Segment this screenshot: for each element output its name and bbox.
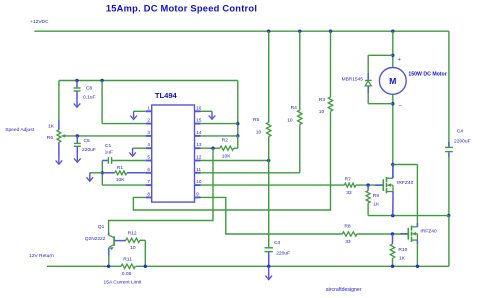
wire M3 source to rail [416, 244, 418, 266]
wire nodeX vertical [101, 161, 103, 186]
transistor M3 IRFZ40 lower [400, 223, 417, 244]
wire Vref down to pin15/14 [237, 81, 239, 136]
resistor R11 [121, 264, 135, 268]
svg-text:10K: 10K [222, 154, 231, 160]
svg-text:1K: 1K [373, 202, 380, 208]
svg-text:R11: R11 [123, 256, 132, 262]
label R6 1K [48, 124, 55, 130]
ground C8 [74, 99, 81, 107]
resistor R7 [344, 183, 355, 187]
svg-text:R8: R8 [344, 223, 351, 229]
svg-text:2: 2 [147, 118, 150, 123]
wire pin16 [201, 110, 213, 112]
svg-text:15A Current Limit: 15A Current Limit [104, 279, 142, 285]
svg-text:R4: R4 [291, 105, 298, 111]
label C4 value [454, 139, 471, 145]
label R9 [373, 193, 380, 199]
label R10 [398, 247, 407, 253]
node +12V rail / R4 junction [298, 30, 301, 33]
svg-text:R3: R3 [319, 97, 326, 103]
wire pin2 drop [102, 81, 146, 124]
svg-text:16: 16 [196, 105, 202, 110]
svg-text:R6: R6 [47, 135, 54, 141]
resistor R9 [366, 185, 370, 216]
svg-text:33: 33 [346, 190, 352, 196]
capacitor C5 [74, 136, 81, 155]
svg-text:aircraftdesigner: aircraftdesigner [326, 287, 362, 293]
svg-text:220uF: 220uF [82, 147, 96, 153]
wire nodeX ground branch [90, 172, 103, 174]
label R9 value [373, 202, 380, 208]
label C8 value [83, 95, 96, 101]
wire drain branch to M3 [393, 165, 418, 227]
label Q1 [98, 224, 105, 230]
wire M2 source [392, 196, 394, 216]
svg-text:1: 1 [147, 105, 150, 110]
ground nodeX [87, 173, 94, 181]
wire Vref to R6 top [58, 81, 60, 130]
wire C4 to source line [448, 157, 450, 216]
svg-text:TL494: TL494 [155, 91, 178, 100]
node pin13/Q1 [211, 147, 214, 150]
label R1 value [116, 177, 125, 183]
node gate M3/R10 [391, 232, 394, 235]
label C3 value [276, 250, 290, 256]
wire flyback top [368, 55, 393, 80]
wire pin8 to R3 [133, 111, 330, 210]
node +12V rail / motor junction [391, 30, 394, 33]
svg-text:Speed Adjust: Speed Adjust [5, 127, 34, 133]
svg-text:10: 10 [319, 109, 325, 115]
svg-text:2200uF: 2200uF [454, 139, 471, 145]
label R6 [47, 135, 54, 141]
svg-text:3: 3 [147, 130, 150, 135]
svg-text:15: 15 [196, 118, 202, 123]
wire motor bottom [392, 94, 394, 178]
label IRFZ40 upper [397, 180, 414, 186]
node pin15 junction [236, 122, 239, 125]
wire rail to motor [392, 31, 394, 67]
label R8 value [345, 239, 351, 245]
node pin14 junction [236, 134, 239, 137]
svg-text:R2: R2 [222, 138, 229, 144]
svg-text:10: 10 [256, 129, 262, 135]
node +12V rail / R3 junction [329, 30, 332, 33]
wire pin4 [133, 147, 146, 149]
wire R6 bottom [58, 142, 60, 156]
pins TL494 numbers [147, 105, 202, 196]
label 15A Current Limit [104, 279, 142, 285]
label Speed Adjust [5, 127, 34, 133]
svg-text:C5: C5 [84, 138, 91, 144]
svg-text:12: 12 [196, 155, 202, 160]
wire 12V return rail right [135, 265, 449, 267]
svg-text:13: 13 [196, 142, 202, 147]
svg-text:4: 4 [147, 142, 150, 147]
label C5 [84, 138, 91, 144]
transistor M2 IRFZ40 upper [375, 175, 393, 196]
label C8 [86, 86, 93, 92]
label TL494 [155, 91, 178, 100]
svg-text:R9: R9 [373, 193, 380, 199]
svg-text:C3: C3 [274, 240, 281, 246]
node wiper/C5 [76, 134, 79, 137]
label R5 [253, 117, 260, 123]
capacitor C1 [102, 157, 145, 164]
ground pin16 [209, 111, 216, 119]
label Q2N2222 [85, 236, 106, 242]
svg-text:9: 9 [196, 191, 199, 196]
ground rail [265, 266, 272, 279]
label R3 [319, 97, 326, 103]
label R11 [123, 256, 132, 262]
label R7 [345, 176, 352, 182]
node R10/ground rail [391, 265, 394, 268]
op-amp U1 TL494 body [152, 105, 195, 202]
motor M1 circle [379, 68, 406, 95]
node motor top [391, 54, 394, 57]
wire Vref horizontal [59, 80, 238, 82]
label R2 value [222, 154, 231, 160]
label R1 [117, 165, 124, 171]
svg-text:IRFZ40: IRFZ40 [397, 180, 414, 186]
node pin12/R5 column [267, 159, 270, 162]
svg-text:11: 11 [196, 167, 201, 172]
ground pin1 [130, 111, 137, 119]
wire R12 to rail [140, 240, 145, 266]
svg-text:12V Return: 12V Return [29, 253, 54, 259]
wire M2 drain [392, 165, 394, 175]
wire R7 to gate [356, 184, 384, 186]
wire pin13 [201, 147, 220, 149]
svg-text:5: 5 [147, 155, 150, 160]
svg-text:R10: R10 [398, 247, 407, 253]
label C1 [105, 143, 112, 149]
wire pin1 [134, 110, 146, 112]
potentiometer R6 [57, 130, 67, 142]
label 150W DC Motor [408, 71, 446, 77]
svg-text:10: 10 [130, 245, 136, 251]
label R12 value [130, 245, 136, 251]
svg-text:8: 8 [147, 191, 150, 196]
node C3/ground rail [267, 265, 270, 268]
label R10 value [399, 256, 406, 262]
svg-text:+: + [398, 57, 401, 63]
wire pin11 [201, 126, 300, 173]
wire pin12 [201, 160, 269, 162]
resistor R10 [390, 234, 394, 266]
svg-text:Q2N2222: Q2N2222 [85, 236, 106, 242]
svg-text:10: 10 [196, 179, 202, 184]
resistor R4 [298, 31, 302, 126]
svg-text:R5: R5 [253, 117, 260, 123]
svg-text:6: 6 [147, 167, 150, 172]
label IRFZ40 lower [420, 228, 437, 234]
wire source line [368, 215, 449, 217]
label R4 [291, 105, 298, 111]
capacitor C3 [265, 247, 273, 267]
svg-text:–: – [399, 103, 403, 109]
svg-text:R1: R1 [117, 165, 124, 171]
svg-text:0.05: 0.05 [122, 271, 132, 277]
wire +12V rail [34, 30, 449, 32]
node source line / C4 column [447, 214, 450, 217]
svg-text:10K: 10K [116, 177, 125, 183]
diode D1 MBR1545 [365, 80, 372, 86]
resistor R8 [342, 232, 357, 236]
label title [106, 4, 257, 14]
node Q1 emitter/rail [107, 265, 110, 268]
svg-text:IRFZ40: IRFZ40 [420, 228, 437, 234]
svg-text:0.1uF: 0.1uF [83, 95, 96, 101]
label C5 value [82, 147, 96, 153]
node M3 source/ground rail [416, 265, 419, 268]
svg-text:+12VDC: +12VDC [30, 19, 49, 25]
label R12 [128, 230, 137, 236]
svg-text:220uF: 220uF [276, 250, 290, 256]
label R8 [344, 223, 351, 229]
wire pin15 [201, 123, 238, 125]
wire 12V return rail left [47, 265, 121, 267]
label +12VDC [30, 19, 49, 25]
wire R2 to pin14 node [234, 136, 238, 148]
resistor R2 [220, 146, 234, 150]
pins TL494 stubs [146, 111, 201, 197]
label R5 value [256, 129, 262, 135]
label R3 value [319, 109, 325, 115]
node nodeX/R1 [101, 171, 104, 174]
svg-text:7: 7 [147, 179, 150, 184]
label C3 [274, 240, 281, 246]
wire +12V rail down to C4 [448, 31, 450, 147]
resistor R1 [102, 171, 145, 175]
label 12V Return [29, 253, 54, 259]
resistor R5 [267, 31, 271, 246]
label motor minus [399, 103, 403, 109]
wire R8 to gate [357, 233, 408, 235]
svg-text:150W DC Motor: 150W DC Motor [408, 71, 446, 77]
label motor M [389, 76, 396, 86]
wire nodeX to pin7 [102, 184, 145, 186]
label R2 [222, 138, 229, 144]
svg-text:MBR1545: MBR1545 [342, 77, 364, 83]
wire pin9 to R8 [201, 197, 343, 234]
node +12V rail / R5 junction [267, 30, 270, 33]
wire pin14 [201, 135, 238, 137]
label R11 value [122, 271, 132, 277]
label R4 value [287, 117, 293, 123]
label R7 value [346, 190, 352, 196]
label C1 value [105, 150, 113, 156]
wire flyback bottom [368, 86, 393, 104]
label aircraftdesigner [326, 287, 362, 293]
svg-text:M: M [389, 76, 396, 86]
label C4 [457, 129, 464, 135]
ground pin4 [129, 148, 136, 156]
svg-text:1K: 1K [399, 256, 406, 262]
svg-text:Q1: Q1 [98, 224, 105, 230]
capacitor C4 [445, 142, 453, 157]
wire pin10 to R7 [201, 184, 345, 186]
label MBR1545 [342, 77, 364, 83]
label motor plus [398, 57, 401, 63]
wire C4 column to ground rail [448, 216, 450, 267]
svg-text:33: 33 [345, 239, 351, 245]
svg-text:15Amp. DC Motor Speed Control: 15Amp. DC Motor Speed Control [106, 4, 257, 14]
svg-text:R7: R7 [345, 176, 352, 182]
resistor R12 [126, 238, 140, 242]
svg-text:C1: C1 [105, 143, 112, 149]
resistor R3 [328, 31, 332, 111]
ground R6 [56, 157, 63, 165]
svg-text:14: 14 [196, 130, 202, 135]
wire pin13 to Q1 [109, 148, 213, 232]
capacitor C8 [74, 81, 81, 100]
svg-text:C8: C8 [86, 86, 93, 92]
wire R6 wiper to pin 3 [67, 135, 146, 137]
node Vref/C8 [75, 79, 78, 82]
transistor Q1 Q2N2222 [109, 233, 126, 267]
node drain branch [391, 163, 394, 166]
node R12/rail [144, 265, 147, 268]
svg-text:R12: R12 [128, 230, 137, 236]
node motor bottom [391, 102, 394, 105]
svg-text:10: 10 [287, 117, 293, 123]
node gate M2/R9 [366, 183, 369, 186]
svg-text:1K: 1K [48, 124, 55, 130]
svg-text:C4: C4 [457, 129, 464, 135]
node source M2 [391, 214, 394, 217]
node Vref/pin2 drop [100, 79, 103, 82]
ground C5 [74, 155, 81, 163]
svg-text:1uF: 1uF [105, 150, 113, 156]
